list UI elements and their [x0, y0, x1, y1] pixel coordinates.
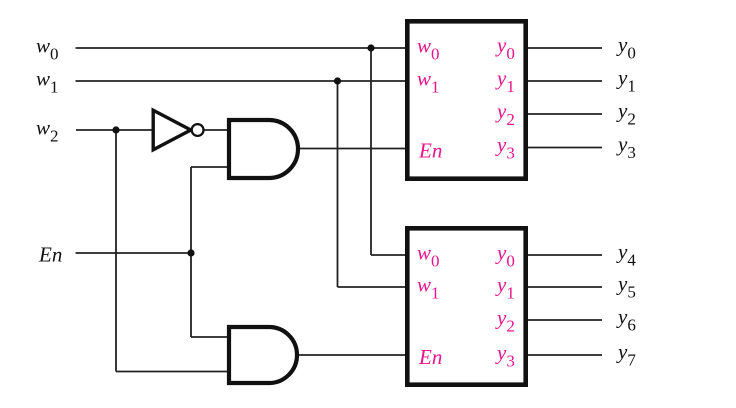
wire w2 branch vertical: [115, 130, 117, 372]
svg-text:w0: w0: [36, 34, 59, 64]
wire En input: [76, 252, 192, 254]
wire En branch vertical: [190, 167, 192, 337]
svg-text:En: En: [418, 139, 442, 163]
node w1 branch: [334, 77, 341, 84]
wire w0 branch to U2 w0: [371, 254, 409, 256]
wire w1 branch to U2 w1: [338, 286, 410, 288]
decoder U1 box: [407, 21, 525, 178]
node w2 branch: [112, 126, 119, 133]
svg-text:En: En: [38, 243, 62, 267]
wire w1 branch vertical: [337, 81, 339, 287]
wire y3 output: [526, 147, 602, 149]
wire AND1 output to U1 En: [299, 148, 409, 150]
and-gate U5: [229, 327, 297, 383]
wire y2 output: [526, 113, 602, 115]
svg-text:w1: w1: [36, 67, 59, 97]
decoder U2 box: [407, 228, 525, 384]
svg-text:y2: y2: [616, 99, 636, 129]
wire AND2 output to U2 En: [299, 354, 409, 356]
inverter U3 triangle: [153, 110, 191, 150]
svg-text:y5: y5: [616, 272, 636, 302]
wire y7 output: [526, 354, 602, 356]
wire En to AND2 upper input: [191, 336, 229, 338]
svg-text:y4: y4: [616, 240, 636, 270]
wire En to AND1 lower input: [191, 166, 229, 168]
wire y1 output: [526, 80, 602, 82]
wire y5 output: [526, 286, 602, 288]
wire inverter to AND1: [203, 129, 229, 131]
wire y0 output: [526, 47, 602, 49]
wire y6 output: [526, 319, 602, 321]
wire w0 branch vertical: [370, 48, 372, 255]
svg-text:w2: w2: [36, 116, 59, 146]
svg-text:y6: y6: [616, 305, 636, 335]
svg-text:y1: y1: [616, 66, 636, 96]
wire w2 branch to AND2 lower input: [116, 371, 229, 373]
svg-text:y7: y7: [616, 340, 636, 370]
svg-text:y0: y0: [616, 33, 636, 63]
svg-text:y3: y3: [616, 132, 636, 162]
inverter U3 bubble: [192, 124, 204, 136]
wire y4 output: [526, 254, 602, 256]
svg-text:En: En: [418, 345, 442, 369]
and-gate U4: [229, 120, 298, 178]
wire w0 input: [76, 47, 410, 49]
node w0 branch: [367, 44, 374, 51]
wire w2 input: [76, 129, 154, 131]
node En branch: [187, 249, 194, 256]
wire w1 input: [76, 80, 410, 82]
